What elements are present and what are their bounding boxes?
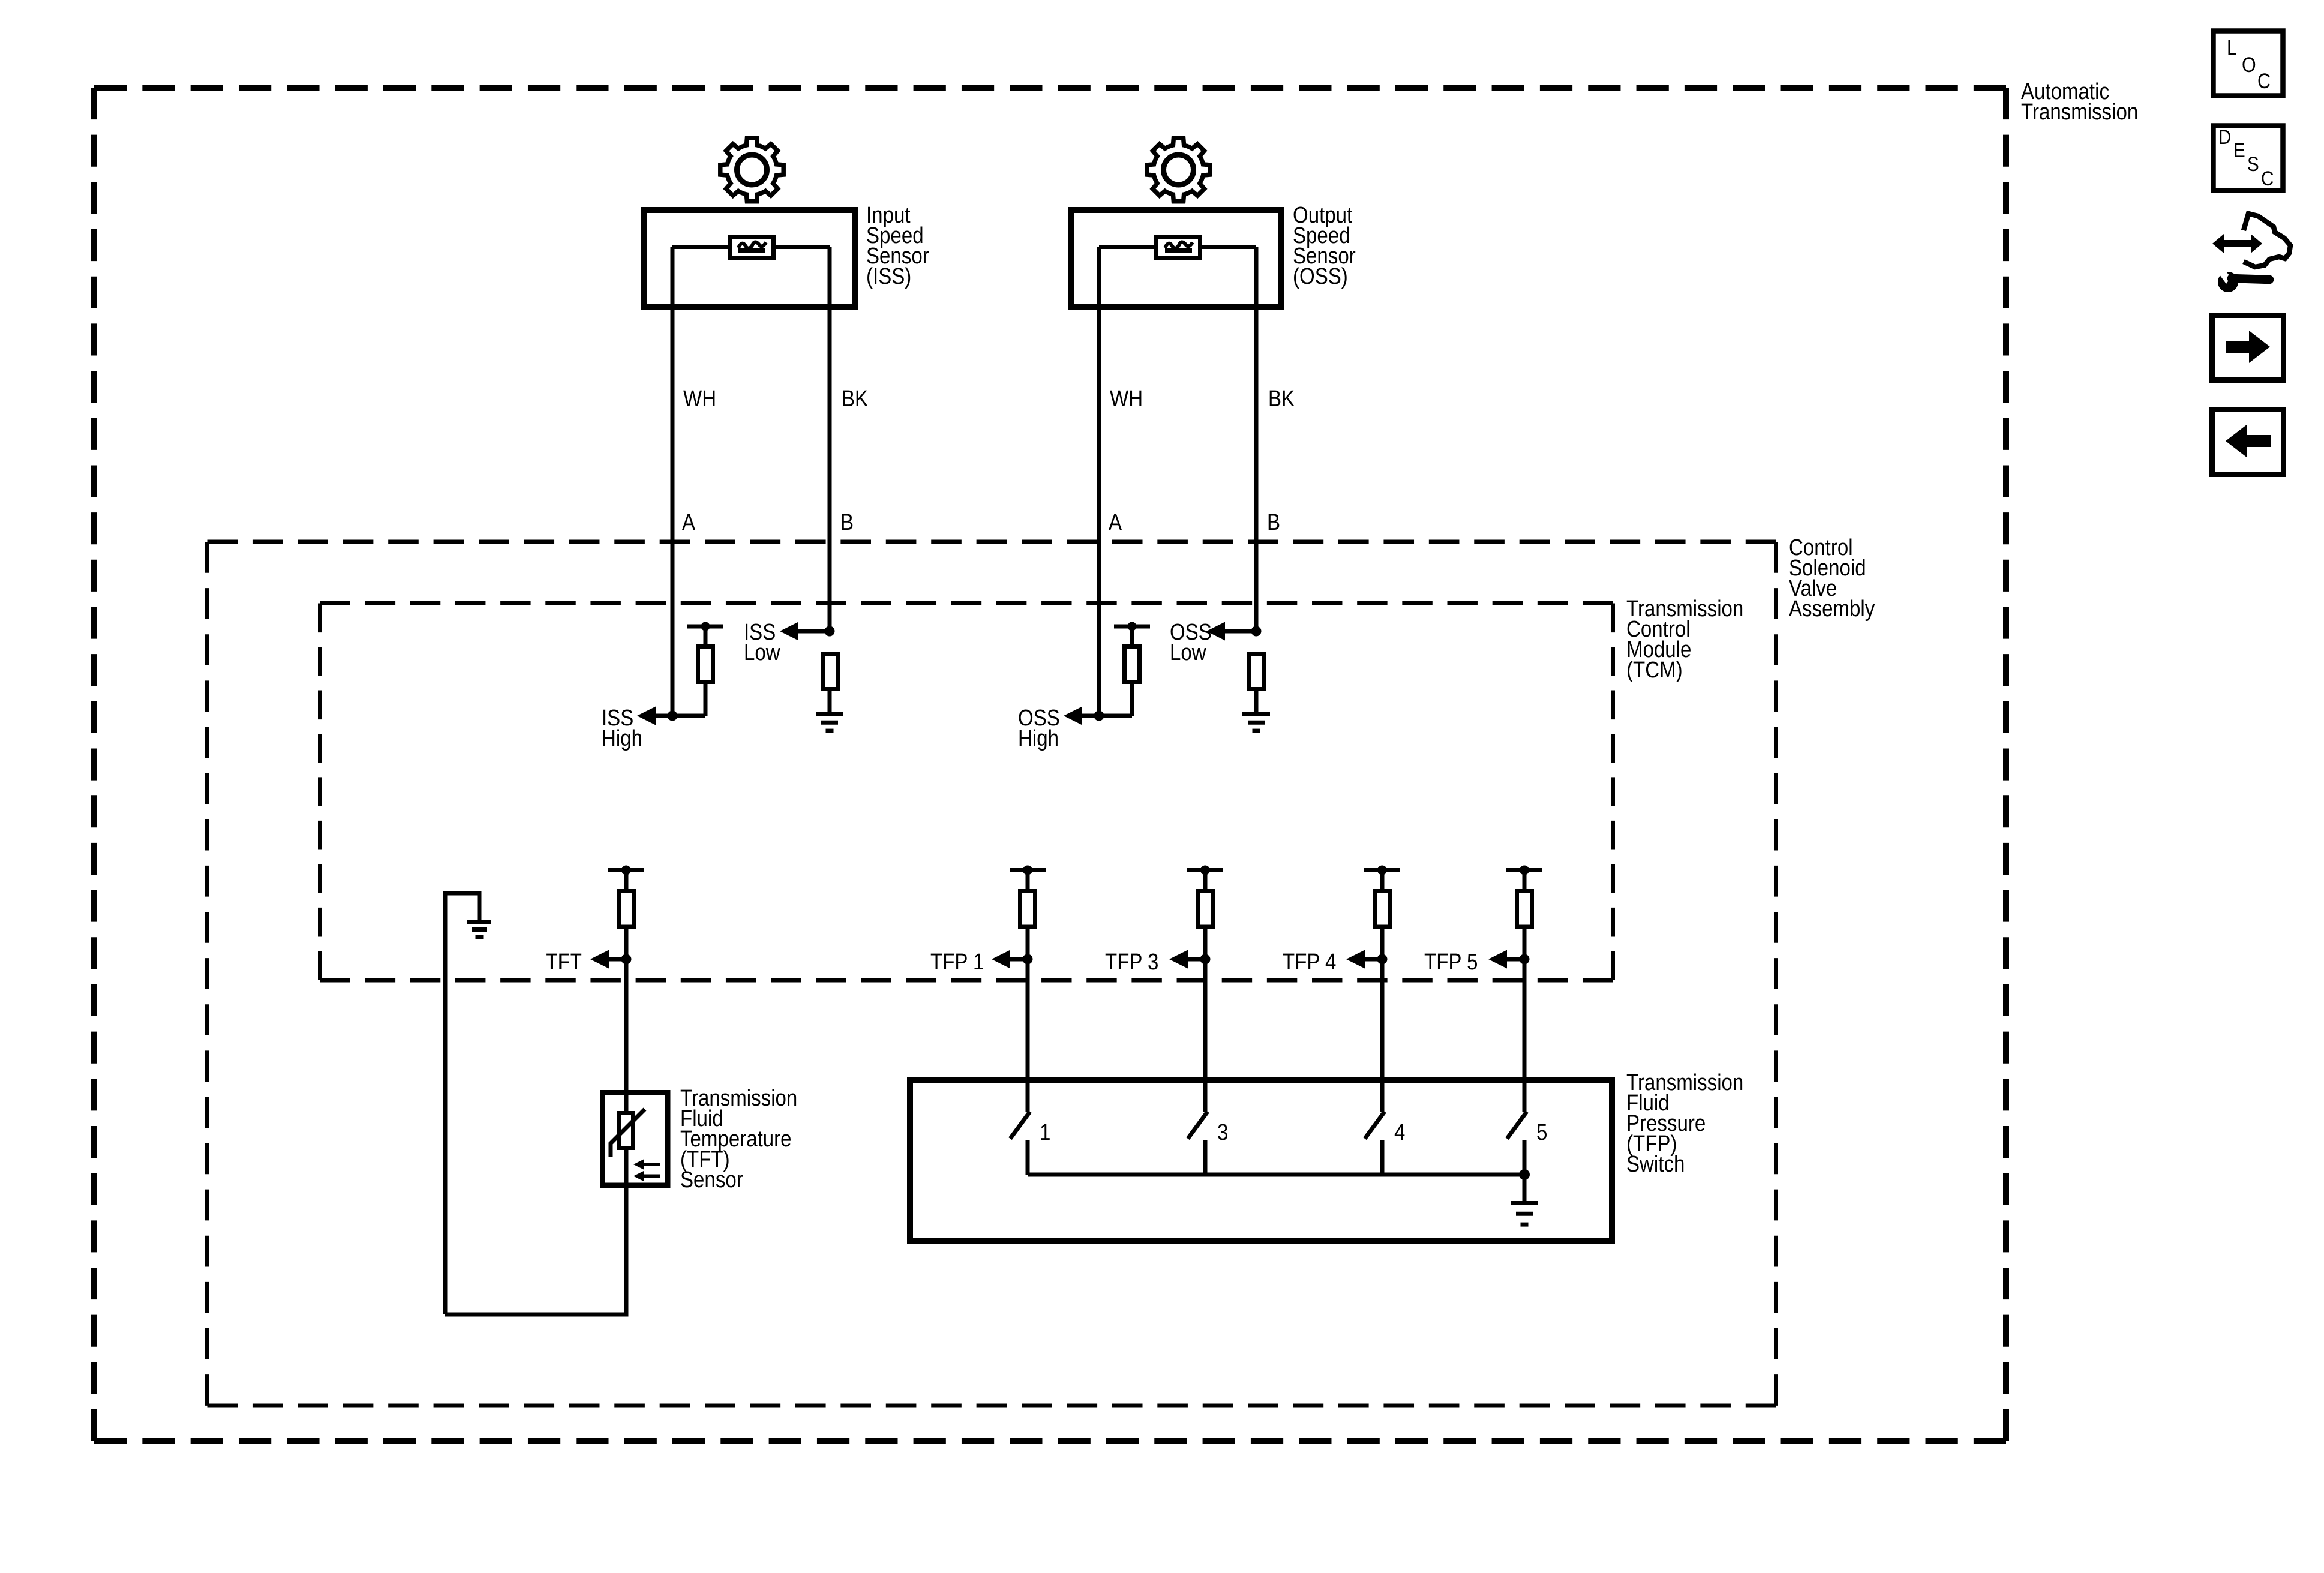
svg-text:High: High	[602, 725, 642, 751]
svg-text:TFT: TFT	[545, 949, 582, 975]
svg-text:TFP 5: TFP 5	[1424, 949, 1478, 975]
svg-text:WH: WH	[1110, 386, 1143, 412]
svg-text:1: 1	[1040, 1119, 1050, 1145]
svg-text:B: B	[840, 509, 854, 535]
svg-text:TFP 3: TFP 3	[1105, 949, 1158, 975]
svg-text:O: O	[2242, 53, 2256, 76]
svg-text:Transmission: Transmission	[2021, 99, 2138, 125]
svg-text:(OSS): (OSS)	[1293, 263, 1348, 289]
svg-text:TFP 4: TFP 4	[1283, 949, 1336, 975]
svg-text:A: A	[1109, 509, 1122, 535]
svg-text:4: 4	[1394, 1119, 1405, 1145]
svg-text:Low: Low	[744, 640, 780, 665]
svg-text:S: S	[2247, 152, 2259, 175]
svg-text:C: C	[2261, 167, 2274, 190]
svg-text:E: E	[2233, 139, 2245, 161]
svg-text:Low: Low	[1170, 640, 1206, 665]
svg-text:D: D	[2218, 125, 2231, 148]
svg-text:C: C	[2257, 69, 2271, 92]
svg-text:Switch: Switch	[1626, 1151, 1685, 1177]
svg-text:3: 3	[1217, 1119, 1228, 1145]
svg-text:(TCM): (TCM)	[1626, 657, 1683, 683]
svg-text:(ISS): (ISS)	[866, 263, 911, 289]
svg-text:B: B	[1267, 509, 1280, 535]
svg-text:A: A	[682, 509, 695, 535]
svg-text:TFP 1: TFP 1	[930, 949, 984, 975]
svg-text:BK: BK	[1268, 386, 1295, 412]
svg-text:L: L	[2227, 35, 2237, 59]
svg-text:5: 5	[1536, 1119, 1547, 1145]
svg-text:High: High	[1018, 725, 1059, 751]
svg-text:Assembly: Assembly	[1789, 596, 1875, 622]
svg-text:WH: WH	[683, 386, 716, 412]
svg-text:Sensor: Sensor	[680, 1167, 743, 1193]
svg-text:BK: BK	[842, 386, 868, 412]
